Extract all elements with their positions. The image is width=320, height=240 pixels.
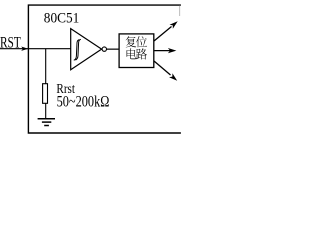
arrowhead on RST wire at chip boundary <box>21 47 28 51</box>
text 复 (reset-circuit label char 1) <box>126 36 137 47</box>
ground symbol (three bars) <box>38 118 55 120</box>
80C51 chip boundary box (left, top, bottom edges) <box>28 5 181 133</box>
schmitt trigger inverter U1 triangle <box>71 29 102 70</box>
arrow: reset circuit output down-right <box>154 61 171 75</box>
wire: lead from resistor Rrst to ground <box>45 103 47 118</box>
wire: vertical lead from RST wire down to resistor Rrst <box>45 49 47 84</box>
arrow: reset circuit output horizontal right <box>154 50 170 52</box>
wire: schmitt trigger output to reset circuit box <box>107 48 120 50</box>
text 路 (reset-circuit label char 4) <box>136 48 147 59</box>
svg-text:80C51: 80C51 <box>44 10 80 26</box>
svg-text:50~200kΩ: 50~200kΩ <box>57 92 110 110</box>
80C51 chip boundary right-edge stub (faint) <box>179 6 181 17</box>
text 位 (reset-circuit label char 2) <box>136 36 147 47</box>
text 电 (reset-circuit label char 3) <box>127 48 137 59</box>
schmitt trigger hysteresis symbol <box>74 40 79 61</box>
wire: RST input line into chip and to schmitt trigger input <box>0 48 71 50</box>
reset circuit block box <box>119 34 154 68</box>
arrow: reset circuit output up-right <box>154 27 172 42</box>
schmitt trigger inverter output bubble <box>102 47 106 51</box>
resistor Rrst body <box>43 84 48 104</box>
